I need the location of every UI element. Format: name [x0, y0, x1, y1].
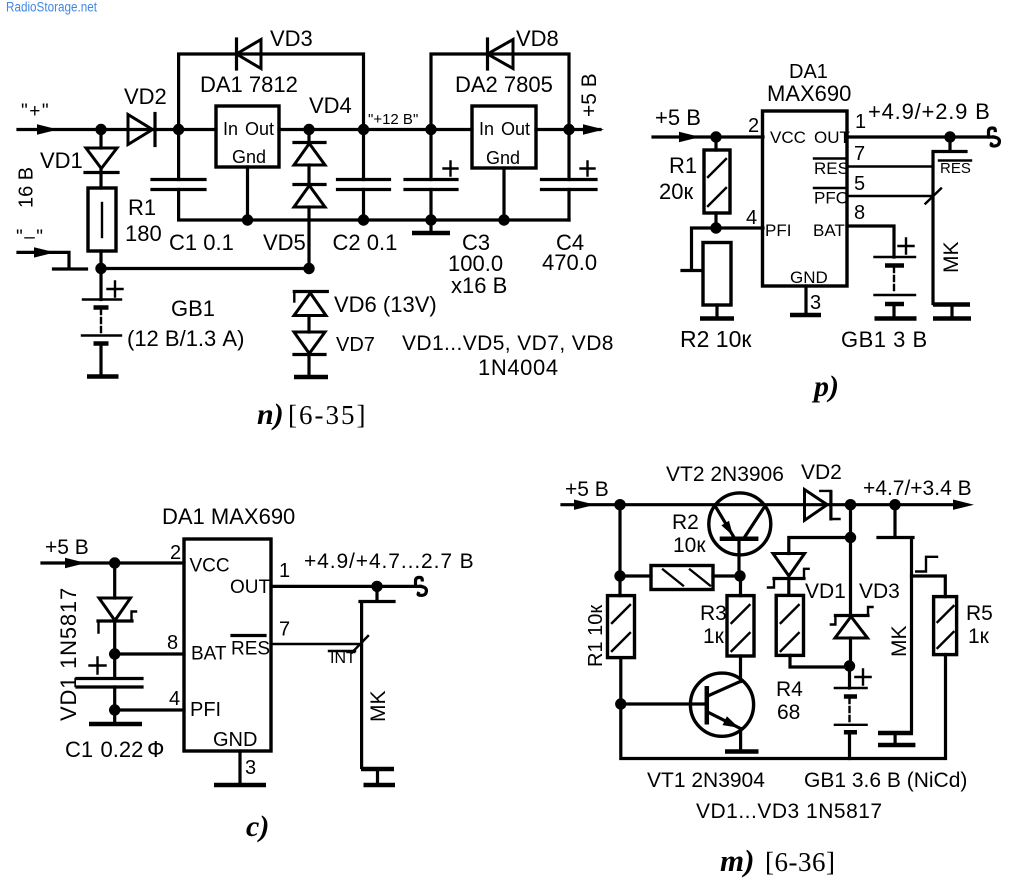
svg-text:BAT: BAT [191, 644, 227, 665]
svg-text:DA1 7812: DA1 7812 [200, 72, 298, 97]
svg-text:PFI: PFI [190, 699, 221, 721]
svg-text:OUT: OUT [814, 128, 850, 147]
svg-text:VD5: VD5 [263, 230, 306, 255]
svg-text:"–": "–" [16, 227, 45, 248]
svg-text:In: In [479, 119, 494, 139]
svg-text:[6-36]: [6-36] [765, 847, 835, 877]
svg-text:VD6 (13V): VD6 (13V) [334, 292, 437, 317]
svg-text:"+": "+" [21, 101, 50, 122]
svg-text:Out: Out [245, 119, 274, 139]
svg-text:3: 3 [245, 757, 256, 779]
svg-text:R1: R1 [669, 153, 697, 178]
svg-text:VCC: VCC [770, 128, 806, 147]
svg-text:GB1 3 В: GB1 3 В [841, 327, 928, 352]
svg-text:VD1: VD1 [805, 580, 846, 603]
svg-text:1N4004: 1N4004 [478, 355, 559, 380]
svg-text:+5 В: +5 В [578, 73, 601, 117]
svg-text:MK: MK [888, 626, 911, 658]
svg-text:VD8: VD8 [516, 26, 559, 51]
svg-text:+5 В: +5 В [655, 105, 701, 130]
svg-text:R3: R3 [700, 602, 727, 625]
svg-text:GB1 3.6 В (NiCd): GB1 3.6 В (NiCd) [804, 769, 967, 792]
svg-text:BAT: BAT [813, 221, 845, 240]
svg-text:VCC: VCC [190, 556, 230, 577]
svg-text:1к: 1к [968, 625, 990, 648]
svg-text:RadioStorage.net: RadioStorage.net [6, 0, 97, 15]
svg-text:(12 В/1.3 А): (12 В/1.3 А) [127, 326, 244, 351]
svg-text:16 В: 16 В [16, 167, 38, 208]
svg-text:RES: RES [231, 639, 270, 660]
svg-text:10к: 10к [673, 534, 706, 557]
svg-text:7: 7 [279, 619, 290, 641]
svg-text:68: 68 [777, 701, 800, 724]
svg-text:C1: C1 [65, 737, 93, 762]
svg-text:470.0: 470.0 [542, 250, 597, 275]
svg-text:VD2: VD2 [801, 461, 842, 484]
svg-text:1: 1 [279, 560, 290, 582]
svg-text:MK: MK [940, 242, 963, 274]
svg-text:8: 8 [854, 202, 865, 224]
svg-text:4: 4 [746, 207, 757, 229]
svg-text:4: 4 [169, 688, 180, 710]
svg-text:GB1: GB1 [171, 296, 215, 321]
svg-text:VD1...VD5, VD7, VD8: VD1...VD5, VD7, VD8 [402, 332, 614, 355]
svg-text:R5: R5 [966, 602, 993, 625]
svg-text:OUT: OUT [230, 577, 271, 598]
svg-text:VD1...VD3 1N5817: VD1...VD3 1N5817 [696, 800, 883, 823]
svg-text:8: 8 [167, 632, 178, 654]
svg-text:C1 0.1: C1 0.1 [169, 230, 234, 255]
svg-text:7: 7 [854, 143, 865, 165]
svg-text:+5 В: +5 В [565, 478, 609, 501]
svg-text:R4: R4 [776, 678, 803, 701]
svg-text:Gnd: Gnd [232, 147, 266, 167]
svg-text:[6-35]: [6-35] [288, 400, 367, 430]
svg-text:c): c) [246, 810, 269, 843]
svg-text:n): n) [257, 398, 284, 431]
svg-text:MAX690: MAX690 [767, 81, 851, 106]
svg-text:MK: MK [367, 691, 390, 723]
svg-text:R2 10к: R2 10к [680, 326, 752, 352]
svg-text:VD2: VD2 [124, 84, 167, 109]
svg-text:VD3: VD3 [859, 580, 900, 603]
svg-text:180: 180 [125, 221, 162, 246]
svg-text:C2 0.1: C2 0.1 [333, 230, 398, 255]
svg-text:1: 1 [855, 111, 866, 133]
svg-text:DA1 MAX690: DA1 MAX690 [162, 504, 295, 529]
svg-text:GND: GND [790, 268, 828, 287]
svg-text:0.22: 0.22 [101, 737, 144, 762]
svg-text:+4.9/+4.7...2.7 В: +4.9/+4.7...2.7 В [304, 550, 475, 573]
svg-text:INT: INT [330, 650, 356, 667]
svg-text:3: 3 [810, 292, 821, 314]
svg-text:VD1: VD1 [40, 148, 83, 173]
svg-text:RES: RES [940, 160, 971, 177]
svg-text:RES: RES [814, 159, 849, 178]
svg-text:2: 2 [748, 115, 759, 137]
svg-text:VD7: VD7 [336, 334, 375, 356]
svg-text:Ф: Ф [147, 736, 165, 762]
svg-text:PFI: PFI [765, 221, 791, 240]
svg-text:VD4: VD4 [309, 93, 352, 118]
svg-text:+4.7/+3.4 В: +4.7/+3.4 В [863, 477, 972, 500]
svg-text:"+12 В": "+12 В" [368, 111, 418, 128]
svg-text:20к: 20к [659, 179, 693, 204]
svg-text:5: 5 [854, 173, 865, 195]
svg-text:GND: GND [213, 729, 257, 751]
svg-text:+5 В: +5 В [45, 536, 89, 559]
svg-text:VD3: VD3 [270, 26, 313, 51]
svg-text:+4.9/+2.9 В: +4.9/+2.9 В [868, 99, 991, 124]
svg-text:R1 10к: R1 10к [585, 605, 607, 667]
svg-text:VT2 2N3906: VT2 2N3906 [666, 463, 784, 486]
svg-text:x16 В: x16 В [451, 273, 507, 298]
svg-text:m): m) [720, 843, 754, 878]
svg-text:R1: R1 [128, 195, 156, 220]
svg-text:2: 2 [170, 542, 181, 564]
svg-text:In: In [223, 119, 238, 139]
svg-text:VD1 1N5817: VD1 1N5817 [56, 587, 81, 721]
svg-text:DA2 7805: DA2 7805 [455, 72, 553, 97]
svg-text:1к: 1к [703, 625, 725, 648]
svg-text:VT1 2N3904: VT1 2N3904 [647, 769, 765, 792]
svg-text:DA1: DA1 [789, 61, 828, 83]
svg-text:R2: R2 [672, 511, 699, 534]
svg-text:p): p) [811, 370, 839, 403]
svg-text:Out: Out [501, 119, 530, 139]
svg-text:PFO: PFO [814, 189, 849, 208]
svg-text:Gnd: Gnd [486, 148, 520, 168]
